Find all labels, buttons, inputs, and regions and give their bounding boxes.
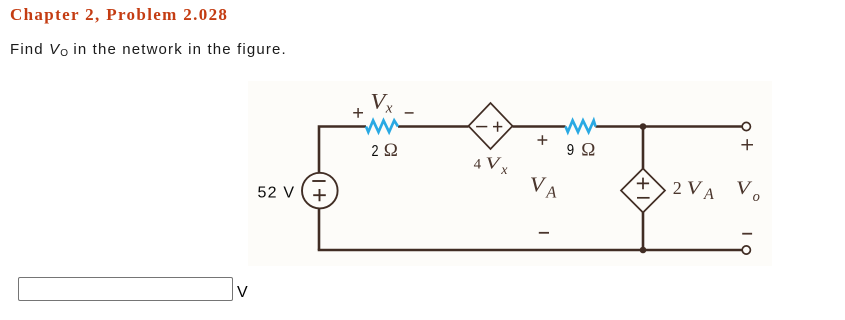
svg-text:2: 2 [372,143,379,160]
label 2 VA [673,178,714,203]
label 52 V [258,185,296,202]
junction node B (top) [640,123,647,130]
output terminal top [742,122,750,130]
dependent source 4Vx [469,103,513,149]
problem statement [10,41,287,59]
svg-text:A: A [703,186,714,203]
svg-text:Ω: Ω [581,139,595,160]
label Vx with polarity above 2 ohm [353,88,413,117]
junction node bottom [640,247,647,254]
svg-text:o: o [753,189,760,205]
svg-text:Ω: Ω [384,140,398,161]
figure background [248,81,772,266]
label 9 ohm [567,139,596,160]
wire top from source corner to node B [319,127,366,173]
svg-text:52 V: 52 V [258,185,296,202]
svg-text:x: x [385,100,393,116]
svg-text:4: 4 [474,156,482,172]
wire dep source 2VA vertical top [642,127,645,170]
svg-text:2: 2 [673,178,682,198]
wire top right (9ohm to output terminal) [596,125,742,128]
svg-text:A: A [545,183,557,202]
wire top (dep source to 9ohm) [513,125,566,128]
dependent source 2VA [621,169,665,213]
wire bottom rail [318,249,742,252]
svg-text:V: V [530,173,547,197]
heading title [10,5,228,25]
svg-text:9: 9 [567,142,574,159]
label 4 Vx [474,154,509,179]
label Vo output voltage with polarity [736,139,760,234]
svg-text:x: x [500,163,508,178]
label 2 ohm [372,140,398,161]
label VA node voltage with polarity [530,135,557,233]
output terminal bottom [742,246,750,254]
voltage source V1 52 V [302,173,338,209]
resistor 9 ohm [566,121,596,133]
resistor 2 ohm [366,121,398,133]
wire top middle (resistor 2ohm to dep source) [398,125,469,128]
wire left lower (source to bottom rail) [318,209,321,250]
unit label V [237,284,248,302]
answer input box [18,277,233,301]
wire dep source 2VA vertical bottom [642,212,645,250]
